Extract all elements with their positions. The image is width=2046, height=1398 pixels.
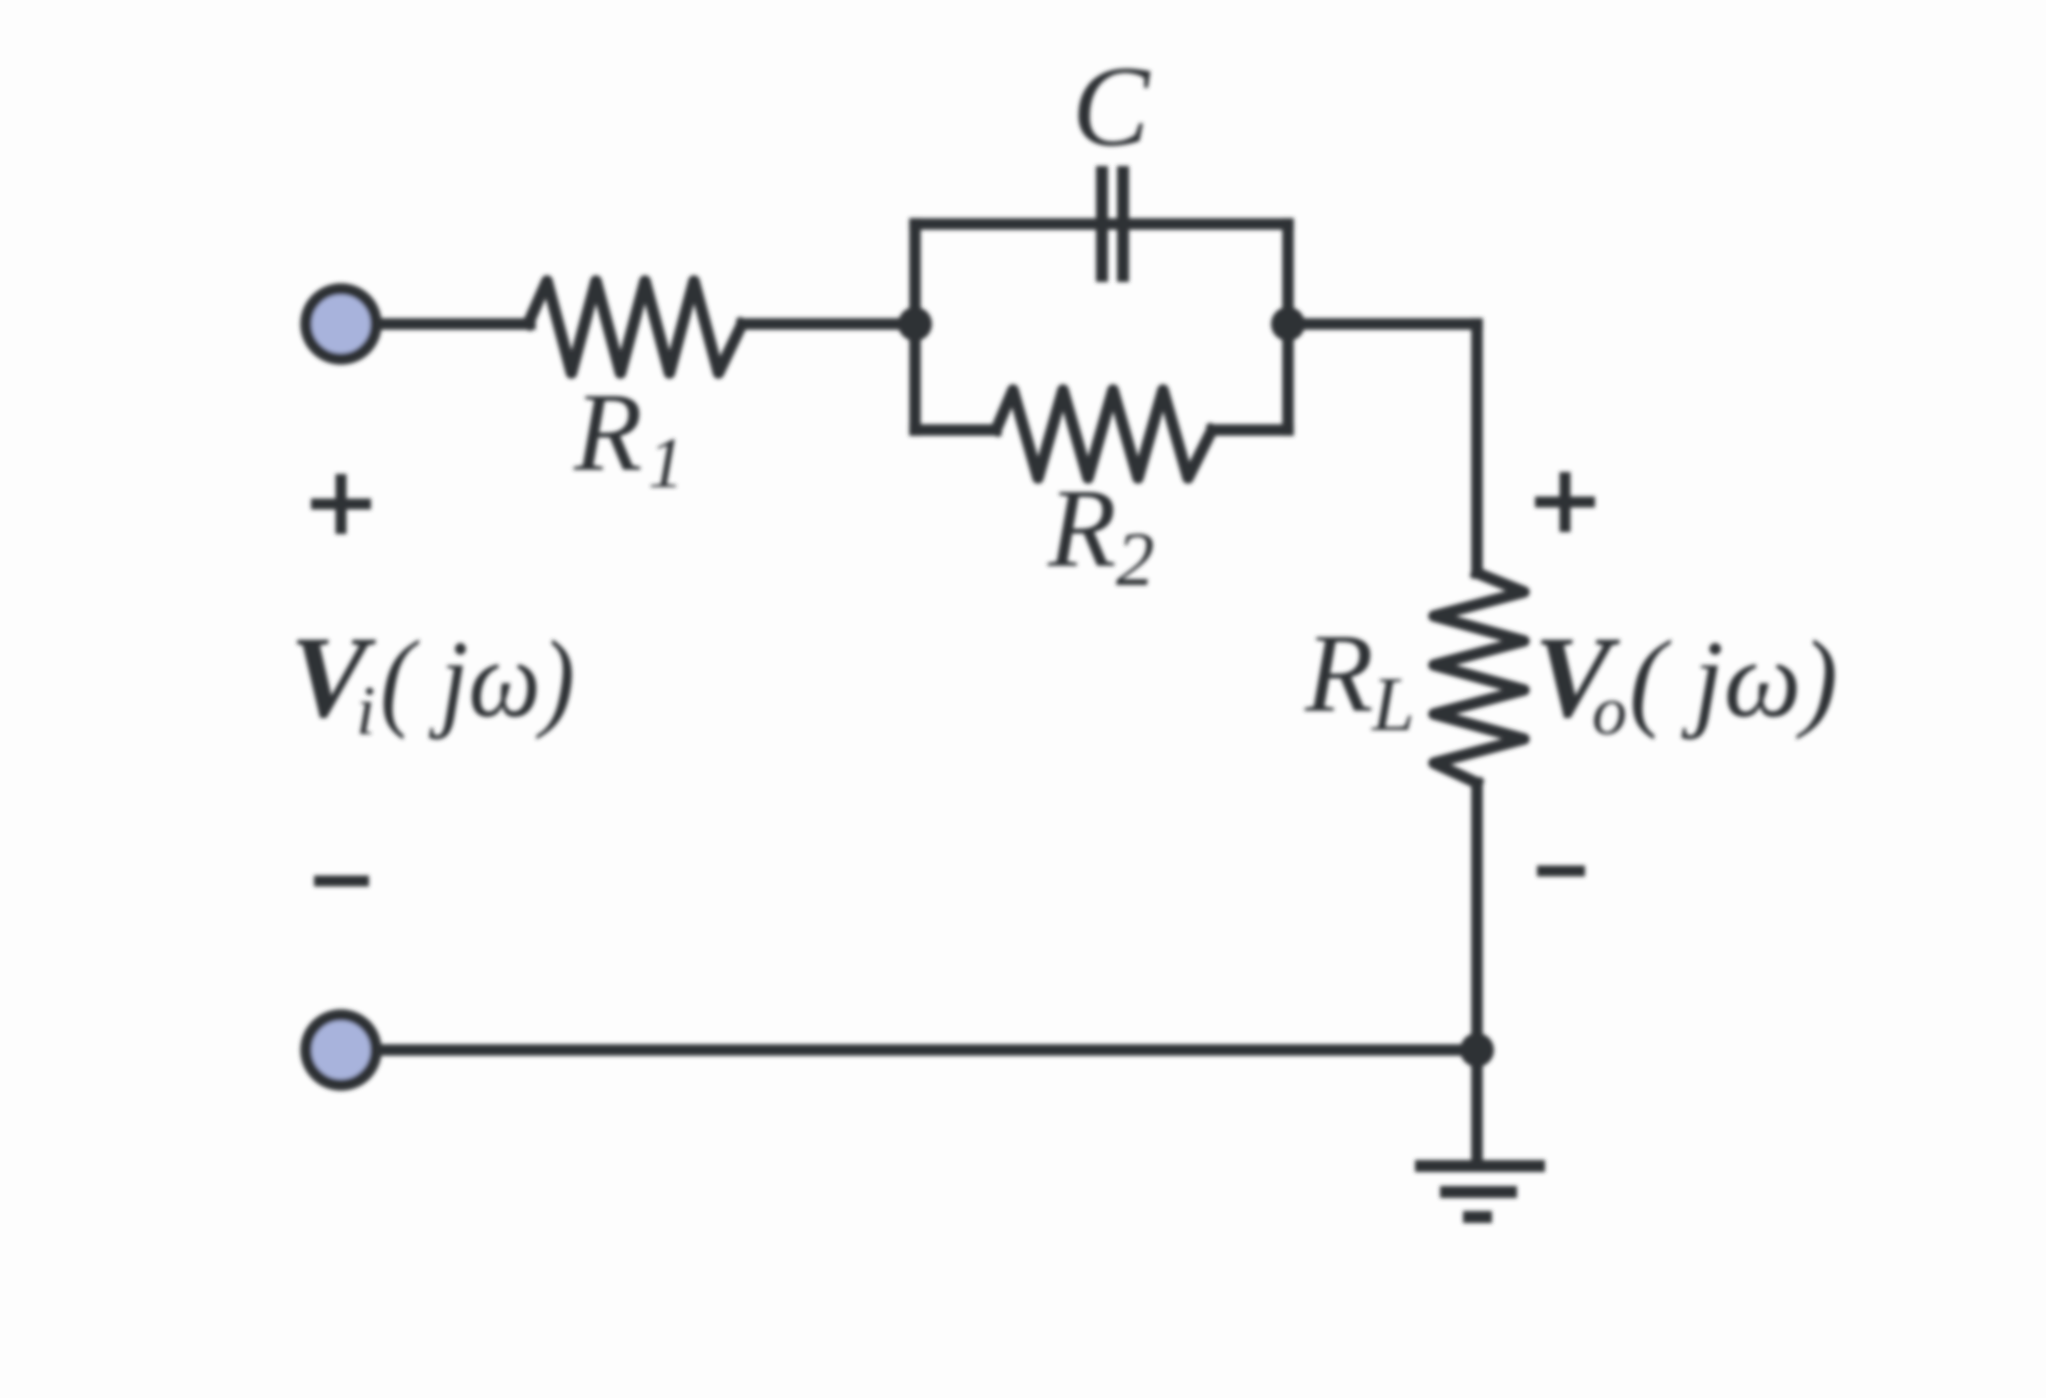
svg-text:C: C bbox=[1072, 43, 1151, 171]
svg-text:R: R bbox=[1047, 467, 1116, 591]
svg-text:1: 1 bbox=[648, 423, 684, 503]
svg-text:L: L bbox=[1371, 661, 1415, 747]
svg-text:( jω): ( jω) bbox=[380, 618, 575, 740]
svg-text:o: o bbox=[1592, 673, 1627, 750]
svg-text:R: R bbox=[1304, 612, 1373, 736]
svg-text:( jω): ( jω) bbox=[1629, 618, 1838, 740]
svg-text:2: 2 bbox=[1116, 516, 1155, 602]
svg-text:R: R bbox=[573, 371, 642, 495]
svg-text:i: i bbox=[356, 673, 375, 750]
